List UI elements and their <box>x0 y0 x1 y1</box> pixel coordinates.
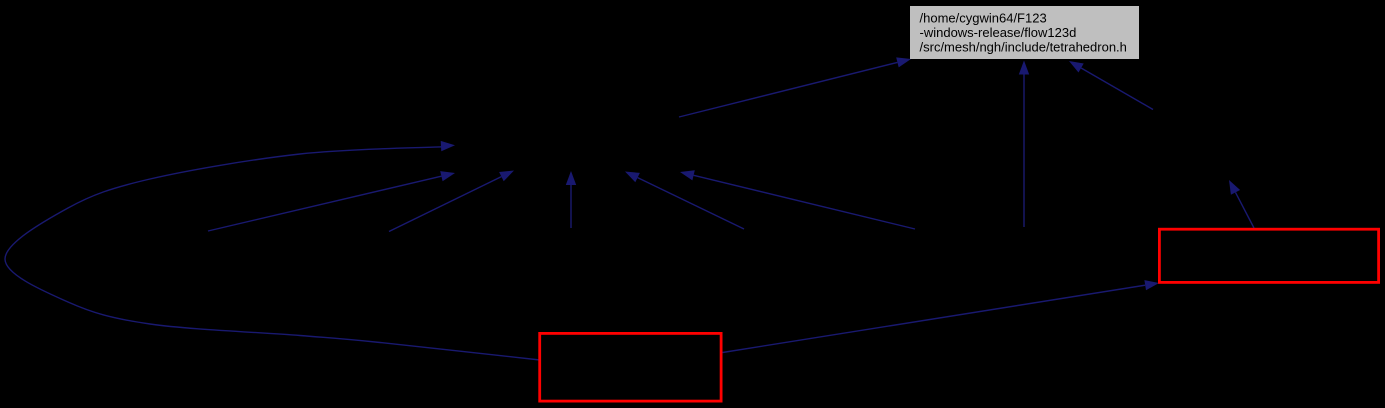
node: right red box (truncated node) <box>1159 229 1378 282</box>
svg-text:/home/cygwin64/F123: /home/cygwin64/F123 <box>920 11 1047 26</box>
edge: node M2 -> node A <box>389 171 514 232</box>
svg-text:/src/mesh/ngh/include/tetrahed: /src/mesh/ngh/include/tetrahedron.h <box>920 39 1127 54</box>
edge: node M3 -> node A (vertical) <box>566 171 576 228</box>
edge: right red node -> node C <box>1229 180 1254 228</box>
edge: bottom red node -> node A (long left loop) <box>5 141 540 360</box>
edge: node M6 -> tetrahedron.h (vertical) <box>1019 61 1029 228</box>
svg-text:-windows-release/flow123d: -windows-release/flow123d <box>920 25 1077 40</box>
node: /home/cygwin64/F123-windows-release/flow123d/src/mesh/ngh/include/tetrahedron.h (current file, grey) <box>910 6 1139 59</box>
edge: node C -> tetrahedron.h <box>1069 61 1153 110</box>
edge: bottom red node -> right red node <box>723 280 1160 352</box>
edge: node M4 -> node A <box>625 172 744 230</box>
edge: node M5 -> node A <box>680 170 915 229</box>
edge: node A -> tetrahedron.h <box>679 57 911 117</box>
node: bottom red box (truncated node) <box>540 333 721 401</box>
edge: node M1 -> node A <box>208 171 455 231</box>
